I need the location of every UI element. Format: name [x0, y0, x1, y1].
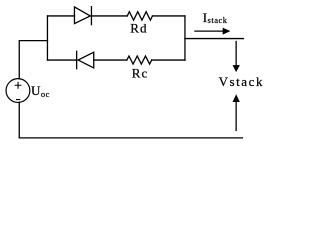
diode D1 (top, anode left)	[74, 7, 91, 25]
wire: top branch left segment	[47, 15, 74, 17]
resistor Rd	[127, 12, 152, 20]
wire: right junction vertical	[184, 16, 186, 60]
plus sign	[15, 82, 21, 88]
Vstack bottom arrow (up)	[233, 94, 240, 130]
svg-text:Rd: Rd	[130, 20, 148, 35]
minus sign	[17, 99, 20, 101]
wire: top diode to Rd	[91, 15, 127, 17]
wire: Rc to right junction	[152, 59, 185, 61]
wire: source top to left junction	[19, 41, 47, 79]
wire: output to the right	[185, 38, 244, 40]
wire: left junction vertical	[46, 16, 48, 60]
voltage source U1 circle	[6, 79, 30, 103]
wire: bottom diode to Rc	[94, 59, 127, 61]
wire: Rd to right junction	[152, 15, 185, 17]
Vstack top arrow (down)	[233, 41, 240, 72]
svg-text:Rc: Rc	[132, 65, 149, 80]
svg-text:Vstack: Vstack	[219, 74, 264, 89]
wire: bottom branch left segment	[47, 59, 76, 61]
svg-text:Uoc: Uoc	[31, 83, 50, 99]
svg-text:Istack: Istack	[203, 10, 228, 25]
resistor Rc	[127, 56, 152, 64]
diode D2 (bottom, cathode left)	[77, 51, 94, 68]
I_stack current arrow	[195, 28, 230, 35]
wire: source bottom and bottom rail	[19, 102, 242, 137]
